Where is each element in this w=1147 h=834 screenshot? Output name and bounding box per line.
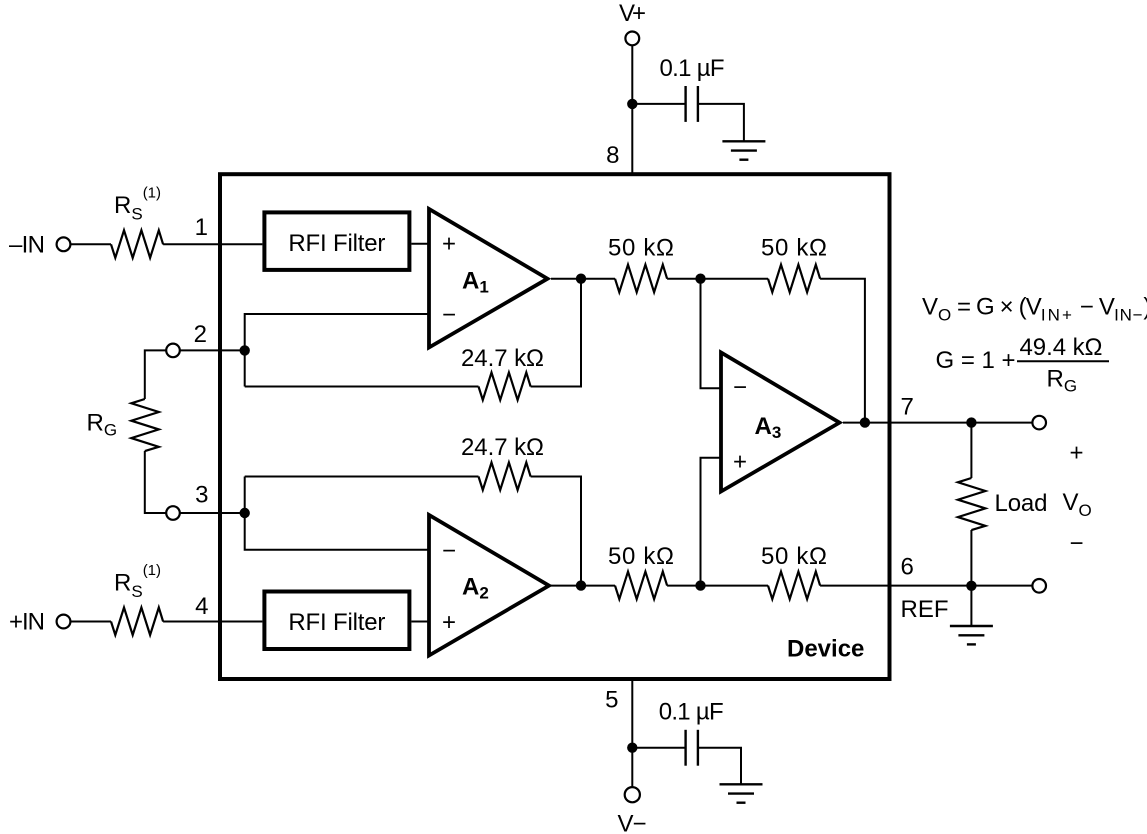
resistor 24.7k upper: [479, 373, 531, 401]
terminal -IN: [57, 237, 71, 251]
V+ terminal: [625, 32, 639, 46]
wire pin2 to RG: [145, 350, 166, 399]
op-amp A3: [721, 353, 840, 492]
resistor 50k top-right: [768, 265, 820, 293]
wire V+ to pin 8: [631, 45, 633, 176]
pin 3 junction: [240, 508, 250, 518]
resistor RS1: [111, 230, 163, 258]
junction bottom cap: [627, 743, 637, 753]
junction top cap: [627, 99, 637, 109]
svg-text:V−: V−: [618, 811, 647, 834]
capacitor C1 0.1uF: [686, 86, 698, 122]
pin 3 terminal: [166, 506, 180, 520]
ground REF: [950, 626, 993, 644]
svg-text:0.1 µF: 0.1 µF: [660, 55, 725, 82]
svg-text:2: 2: [194, 321, 207, 348]
wire pin 6 REF line: [820, 585, 1032, 587]
terminal out 7: [1032, 416, 1046, 430]
svg-text:V+: V+: [619, 0, 646, 27]
capacitor C2 0.1uF: [686, 730, 698, 766]
terminal +IN: [57, 615, 71, 629]
svg-text:4: 4: [195, 593, 208, 620]
wire 50k BL to node: [667, 585, 768, 587]
op-amp A1: [429, 209, 548, 348]
wire A2 minus input: [245, 477, 429, 550]
svg-text:−: −: [1069, 530, 1083, 557]
wire -IN to RS1: [70, 243, 111, 245]
svg-text:3: 3: [195, 482, 208, 509]
wire RFI2 to A2+: [411, 621, 429, 623]
junction bottom mid: [695, 580, 705, 590]
svg-text:REF: REF: [901, 596, 949, 623]
svg-text:G = 1 +: G = 1 +: [936, 347, 1016, 374]
wire +IN to RS2: [70, 621, 111, 623]
svg-text:Device: Device: [787, 636, 864, 663]
terminal out 6: [1032, 579, 1046, 593]
RFI Filter box 2: [264, 592, 409, 650]
wire pin 5: [631, 677, 633, 787]
svg-text:50 kΩ: 50 kΩ: [761, 235, 827, 262]
resistor RS2: [111, 608, 163, 636]
V- terminal: [625, 787, 640, 802]
svg-text:49.4 kΩ: 49.4 kΩ: [1020, 334, 1103, 361]
svg-text:RFI Filter: RFI Filter: [288, 609, 385, 636]
junction load top: [966, 417, 976, 427]
wire 50k TR to A3 out: [820, 279, 865, 423]
svg-text:6: 6: [901, 554, 914, 581]
svg-text:−: −: [442, 302, 456, 329]
junction A1 out: [576, 274, 586, 284]
wire A3 output pin 7: [843, 422, 1032, 424]
wire 24.7k top row: [245, 386, 479, 388]
wire 50k TL to node: [667, 278, 768, 280]
svg-text:24.7 kΩ: 24.7 kΩ: [461, 345, 544, 372]
svg-text:−: −: [733, 374, 747, 401]
formula G = 1 + 49.4k/RG: [936, 334, 1110, 396]
junction A2 out: [576, 580, 586, 590]
junction A3 out: [860, 417, 870, 427]
svg-text:+: +: [1069, 440, 1083, 467]
svg-text:5: 5: [605, 687, 618, 714]
wire A3 plus input: [701, 458, 722, 586]
svg-text:7: 7: [901, 394, 914, 421]
wire load top: [970, 423, 972, 478]
device box U1: [220, 174, 890, 679]
svg-text:RFI Filter: RFI Filter: [288, 230, 385, 257]
op-amp A2: [429, 515, 549, 656]
wire junction to C2: [632, 747, 685, 749]
wire RFI1 to A1+: [411, 243, 429, 245]
resistor 50k bottom-left: [615, 572, 667, 600]
svg-text:50 kΩ: 50 kΩ: [608, 543, 674, 570]
wire pin 3: [180, 512, 245, 514]
pin 2 junction: [240, 345, 250, 355]
svg-text:8: 8: [606, 142, 619, 169]
wire 24.7k to A1 out node: [531, 279, 581, 387]
svg-text:1: 1: [195, 214, 208, 241]
svg-text:−: −: [442, 537, 456, 564]
wire A2 output: [551, 585, 615, 587]
svg-text:0.1 µF: 0.1 µF: [659, 699, 724, 726]
junction REF: [966, 581, 976, 591]
resistor RG: [131, 399, 159, 451]
wire pin4 to RFI2: [163, 621, 262, 623]
wire 24.7k bottom row: [245, 476, 479, 478]
pin 2 terminal: [166, 344, 180, 358]
svg-text:Load: Load: [995, 490, 1048, 517]
ground top: [722, 141, 765, 159]
svg-text:–IN: –IN: [9, 232, 45, 259]
resistor 50k bottom-right: [768, 572, 820, 600]
wire RG to pin 3: [145, 451, 166, 513]
svg-text:50 kΩ: 50 kΩ: [608, 235, 674, 262]
wire node to A3 minus: [701, 279, 722, 389]
wire junction to C1: [632, 103, 685, 105]
wire 24.7k lower to A2 out node: [531, 477, 581, 586]
wire REF to ground: [970, 586, 972, 626]
resistor Load: [958, 478, 986, 530]
wire A1 minus input: [245, 314, 429, 387]
svg-text:50 kΩ: 50 kΩ: [761, 543, 827, 570]
svg-text:+IN: +IN: [9, 609, 45, 636]
RFI Filter box 1: [264, 212, 409, 270]
wire pin 2: [180, 349, 245, 351]
junction top mid: [695, 274, 705, 284]
svg-text:+: +: [442, 609, 456, 636]
wire C2 to ground: [698, 748, 741, 785]
svg-text:VO = G × (VIN+ − VIN−): VO = G × (VIN+ − VIN−): [922, 293, 1147, 324]
svg-text:+: +: [733, 448, 747, 475]
svg-text:24.7 kΩ: 24.7 kΩ: [461, 434, 544, 461]
resistor 50k top-left: [615, 265, 667, 293]
wire load bottom: [970, 530, 972, 586]
resistor 24.7k lower: [479, 463, 531, 491]
wire pin1 to RFI1: [163, 243, 262, 245]
ground bottom: [720, 784, 763, 802]
wire C1 to ground: [698, 104, 744, 141]
wire A1 output: [551, 278, 615, 280]
svg-text:+: +: [442, 231, 456, 258]
